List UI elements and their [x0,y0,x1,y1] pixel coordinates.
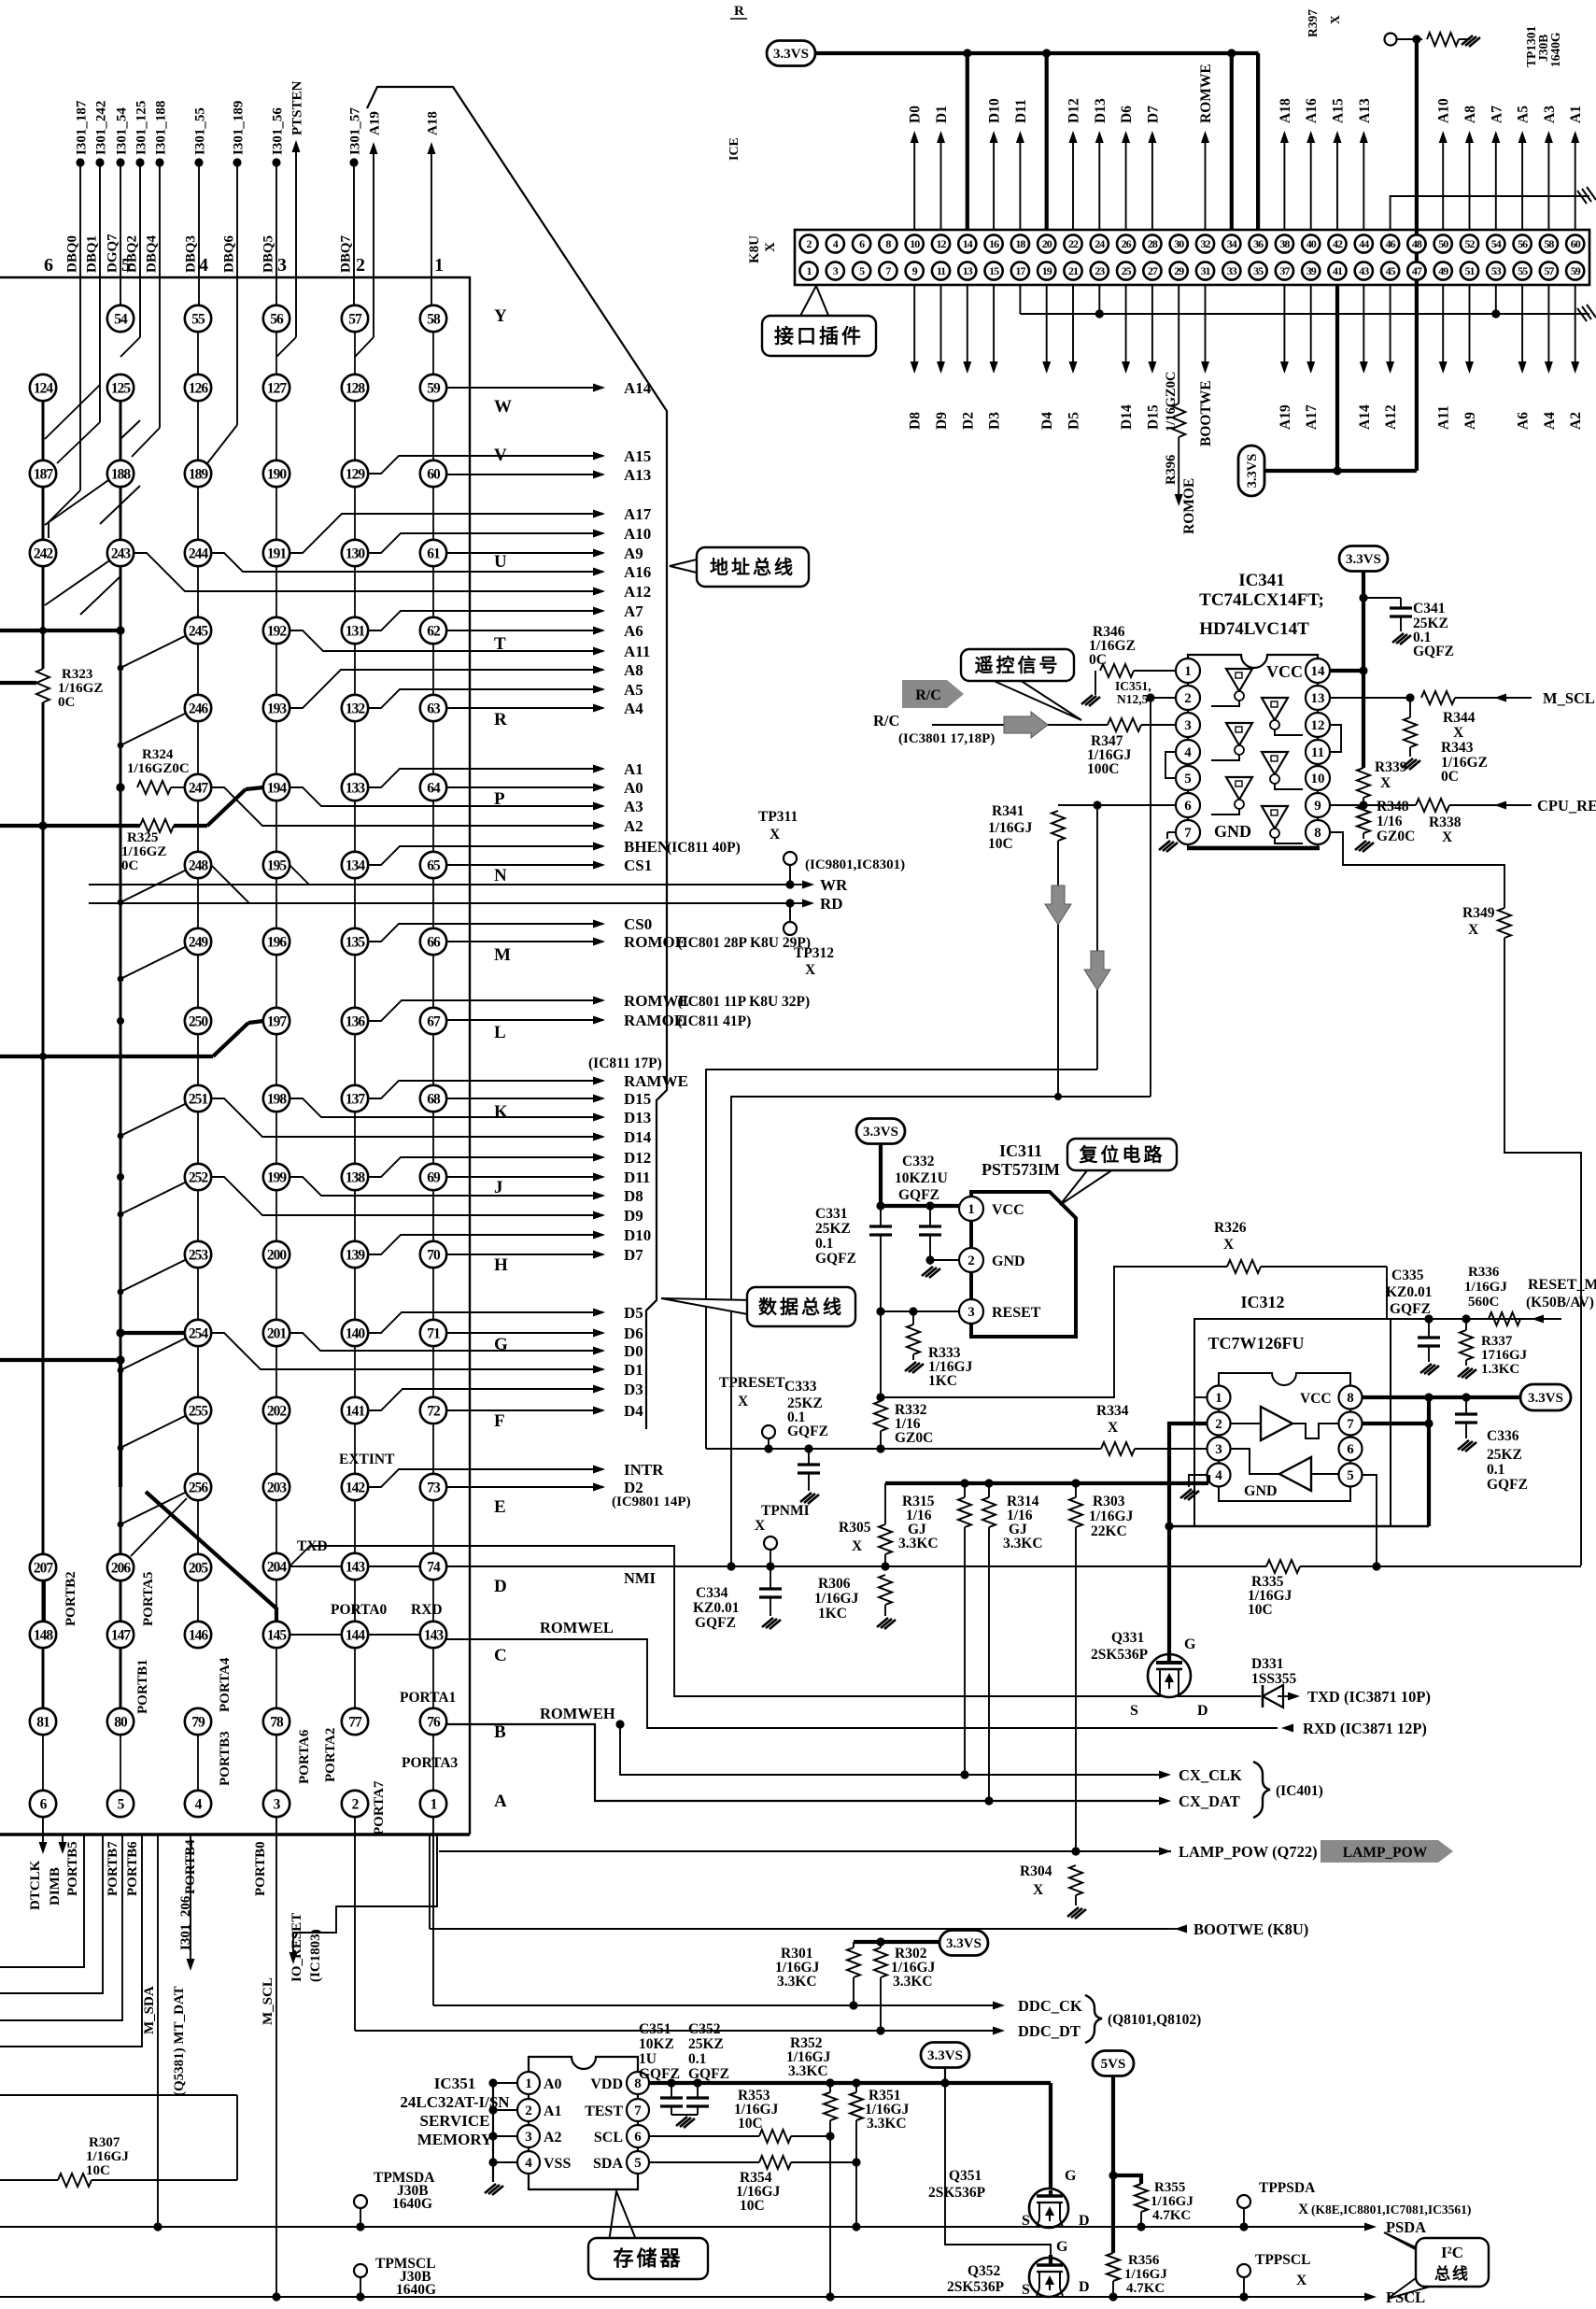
signal BHEN [368,846,603,865]
svg-text:N: N [494,866,507,885]
wire TXD route from 204 to Q331 S [290,1546,1149,1696]
svg-text:X: X [1442,829,1453,845]
svg-text:(IC811 40P): (IC811 40P) [667,840,741,856]
svg-text:A9: A9 [624,545,643,562]
CPU pin 2 [342,1791,368,1817]
svg-text:SERVICE: SERVICE [420,2112,490,2130]
svg-text:198: 198 [267,1091,288,1107]
connector pin 48 [1407,234,1425,252]
CPU pin 69 [420,1164,446,1190]
svg-text:1.3KC: 1.3KC [1481,1362,1519,1377]
svg-text:X: X [755,1518,766,1534]
svg-text:A17: A17 [624,505,652,523]
wire diagonal 256 to 206 [131,1498,187,1556]
svg-text:DBQ4: DBQ4 [145,234,160,273]
wire GND bus thick [885,1481,1208,1485]
svg-text:R355: R355 [1154,2180,1185,2195]
staircase wire 5 [0,2094,237,2096]
svg-text:R334: R334 [1096,1403,1129,1419]
svg-text:2: 2 [1215,1417,1222,1432]
connector pin 27 [1143,262,1161,279]
wire fan diagonal to row 758 [120,714,185,745]
signal D6 [446,1332,603,1334]
connector pin 25 [1117,262,1135,279]
svg-text:D2: D2 [960,412,976,430]
wire column4 vertical [275,332,277,1791]
signal D0 [290,1333,603,1351]
resistor R304 X [1069,1865,1082,1895]
svg-text:197: 197 [267,1013,288,1029]
resistor R306 1/16GJ 1KC [879,1575,892,1605]
connector pin 15 [985,262,1003,279]
svg-text:C352: C352 [688,2021,721,2037]
svg-text:3: 3 [277,255,287,276]
svg-text:207: 207 [34,1560,54,1576]
CPU pin 77 [342,1708,368,1735]
svg-text:PORTB0: PORTB0 [253,1841,268,1896]
svg-text:D0: D0 [908,106,924,123]
resistor R335 1/16GJ 10C [1266,1560,1300,1573]
svg-text:194: 194 [267,780,288,796]
svg-text:2: 2 [967,1254,975,1268]
svg-text:D: D [1197,1703,1208,1719]
wire pin31 down signal BOOTWE [1205,285,1207,364]
svg-text:TPRESET: TPRESET [719,1375,785,1391]
svg-text:201: 201 [267,1325,287,1341]
wire 3.3VS to pin14 [966,53,969,230]
power 3.3VS for IC311 [856,1119,905,1144]
svg-text:3.3KC: 3.3KC [1003,1536,1043,1551]
svg-text:R: R [734,4,744,19]
svg-text:数据总线: 数据总线 [758,1296,844,1318]
svg-text:RXD: RXD [411,1602,443,1618]
svg-text:17: 17 [1015,264,1025,277]
svg-text:E: E [494,1497,506,1517]
wire fan diagonal to row 926 [120,871,185,902]
svg-text:4: 4 [1215,1468,1222,1483]
signal CX_CLK [1159,1771,1171,1779]
svg-text:EXTINT: EXTINT [339,1452,395,1467]
CPU pin 128 [342,375,368,401]
svg-text:C335: C335 [1391,1268,1424,1283]
svg-text:D11: D11 [1013,99,1029,123]
connector pin 18 [1011,234,1029,252]
wire pin2 net IC351 N12.5 [1151,697,1175,699]
svg-text:A18: A18 [426,111,441,135]
CPU pin 134 [342,852,368,878]
wire NMI junction [881,1562,889,1570]
svg-text:25KZ: 25KZ [815,1221,851,1237]
connector pin 34 [1222,234,1240,252]
resistor R325 1/16GZ in thick line [0,824,140,828]
svg-text:14: 14 [1311,664,1326,679]
svg-text:55: 55 [1518,264,1528,277]
svg-text:0C: 0C [58,695,75,710]
svg-text:5: 5 [1184,772,1192,786]
svg-text:128: 128 [346,380,366,396]
connector pin 35 [1250,262,1267,279]
wire CX_CLK route [615,1720,624,1728]
svg-text:PORTA1: PORTA1 [400,1690,456,1706]
svg-text:CX_CLK: CX_CLK [1179,1766,1242,1784]
signal WR line [290,865,309,885]
signal ROMWE [368,1000,603,1021]
svg-text:124: 124 [34,380,54,396]
svg-text:R/C: R/C [873,712,899,730]
wire cross link lower [731,1097,1151,1566]
signal A2 [211,787,603,826]
svg-text:26: 26 [1122,237,1132,250]
svg-text:205: 205 [189,1560,209,1576]
svg-text:TC74LCX14FT;: TC74LCX14FT; [1199,590,1324,610]
svg-text:1/16GJ: 1/16GJ [1151,2194,1193,2209]
svg-text:D4: D4 [624,1402,643,1420]
CPU pin 188 [107,460,134,487]
CPU pin 148 [30,1622,56,1648]
svg-text:A1: A1 [624,760,643,778]
CPU pin 204 [263,1553,290,1579]
svg-text:10: 10 [1311,772,1325,786]
svg-text:R341: R341 [992,803,1024,819]
svg-text:IC341: IC341 [1238,571,1285,590]
svg-text:144: 144 [346,1627,366,1643]
wire pin49 down signal A11 [1442,285,1444,364]
svg-text:61: 61 [427,545,440,561]
staircase wire 2 [0,1834,103,1993]
svg-text:253: 253 [189,1247,209,1263]
svg-text:133: 133 [346,780,366,796]
svg-text:3.3VS: 3.3VS [1346,552,1381,567]
svg-text:J: J [494,1178,503,1197]
svg-text:X: X [763,242,778,252]
wire VDD corner to Q351 gate [1049,2083,1052,2190]
test point TPPSDA X [1237,2195,1250,2208]
svg-text:1/16GZ0C: 1/16GZ0C [1164,372,1179,432]
wire SDA down to TPMSDA line [855,2162,857,2227]
wire DDC_CK vertical [432,1817,434,2005]
svg-text:X: X [1453,725,1464,741]
svg-text:D10: D10 [987,98,1003,123]
connector pin 48 overlay [1407,234,1425,252]
CPU pin 60 [420,460,446,487]
svg-text:11: 11 [1311,745,1324,760]
IC341 pin 2 [1176,686,1200,710]
bracket Q8101 Q8102 [1085,1995,1102,2043]
CPU pin 56 [263,305,290,332]
svg-text:0.1: 0.1 [815,1236,833,1252]
wire pin27 down signal D15 [1151,285,1153,364]
svg-text:39: 39 [1306,264,1317,277]
svg-text:(IC401): (IC401) [1276,1783,1323,1799]
wire DDC_DT vertical [354,1817,356,2031]
CPU pin 198 [263,1085,290,1112]
wire fan diagonal [100,486,140,524]
connector pin 53 [1487,262,1504,279]
signal A4 [446,707,603,709]
svg-text:IO_RESET: IO_RESET [290,1913,304,1982]
IC351 pin 5 SDA [627,2151,649,2174]
svg-text:10C: 10C [740,2198,765,2214]
inverter gate 6 [1262,806,1288,829]
test point TPMSCL J30B 1640G [354,2264,367,2277]
svg-text:1/16GJ: 1/16GJ [1124,2267,1167,2282]
CPU pin 137 [342,1085,368,1112]
CPU pin 203 [263,1474,290,1500]
IC U311 body [971,1192,1076,1337]
svg-text:131: 131 [346,623,365,639]
resistor R303 1/16GJ 22KC [1069,1497,1082,1527]
svg-text:10KZ1U: 10KZ1U [895,1170,948,1186]
svg-text:BOOTWE: BOOTWE [1198,380,1214,446]
wire DBQ7 down to 57 [353,163,355,305]
CPU pin 66 [420,928,446,955]
svg-text:29: 29 [1174,264,1184,277]
svg-text:DBQ6: DBQ6 [222,234,237,273]
staircase wire 1 [0,1834,84,1967]
svg-text:(IC9801,IC8301): (IC9801,IC8301) [805,857,905,872]
svg-text:20: 20 [1042,237,1052,250]
svg-text:12: 12 [1311,718,1325,733]
net I301_187 DBQ0 top wire [76,158,84,166]
connector pin 43 [1355,262,1373,279]
svg-text:54: 54 [114,311,128,327]
svg-text:C: C [494,1646,507,1665]
connector pin 22 [1064,234,1081,252]
svg-text:A10: A10 [1436,98,1452,123]
svg-text:GQFZ: GQFZ [1390,1301,1431,1317]
svg-text:1640G: 1640G [392,2196,432,2212]
svg-text:RAMOE: RAMOE [624,1012,685,1029]
wire pin38 up signal A18 [1283,142,1285,230]
op-amp U341 body TC74LCX14FT [1188,655,1318,847]
svg-text:37: 37 [1279,264,1290,277]
svg-text:48: 48 [1412,237,1422,250]
svg-text:44: 44 [1359,237,1369,250]
IC312 pin 4 [1208,1464,1231,1487]
connector pin 58 [1540,234,1558,252]
svg-text:A11: A11 [1436,405,1452,430]
CPU pin 206 [107,1554,134,1580]
wire R349 down to R335 line [1504,938,1581,1565]
svg-text:A1: A1 [1568,106,1584,123]
svg-text:34: 34 [1227,237,1237,250]
svg-text:81: 81 [36,1714,49,1730]
resistor R332 1/16 GZ0C [874,1401,887,1431]
connector pin 44 [1355,234,1373,252]
net A19 arrow [370,142,378,154]
svg-text:KZ0.01: KZ0.01 [1386,1284,1433,1300]
CPU pin 131 [342,617,368,644]
svg-text:3.3KC: 3.3KC [777,1974,817,1990]
buffer triangle 1 [1261,1407,1292,1440]
power 3.3VS right [1520,1384,1571,1410]
test point TP312 X [789,903,791,922]
svg-text:D15: D15 [1145,404,1161,430]
net I301_55 DBQ3 top wire [194,158,203,166]
connector pin 41 [1328,262,1346,279]
svg-text:TP311: TP311 [758,809,798,825]
wire pin2 to ground [930,1259,959,1261]
CPU pin 142 [342,1474,368,1500]
connector pin 17 [1011,262,1029,279]
svg-text:ROMWEL: ROMWEL [540,1619,614,1636]
wire R301 R302 top rail [854,1940,940,1944]
wire pin39 down signal A17 [1310,285,1312,364]
wire DBQ1 down to 187 [99,163,101,422]
svg-text:22: 22 [1068,237,1079,250]
wire DBQ3 down to 55 [198,163,200,305]
svg-text:100C: 100C [1087,761,1119,777]
wire pin6 junction down long [1096,805,1098,1070]
svg-text:62: 62 [427,623,441,639]
svg-text:134: 134 [346,857,366,873]
svg-text:1: 1 [434,255,444,276]
svg-text:58: 58 [427,311,441,327]
CPU pin 207 [30,1554,56,1580]
callout I2C 总线 [1384,2232,1436,2260]
CPU pin 81 [30,1708,56,1735]
svg-text:Y: Y [494,306,507,326]
svg-text:1U: 1U [639,2051,657,2067]
svg-text:D3: D3 [987,412,1003,430]
connector pin 33 [1222,262,1240,279]
wire pin5 to R335 line [1363,1475,1377,1566]
svg-text:GQFZ: GQFZ [815,1251,856,1267]
svg-text:202: 202 [267,1403,288,1419]
svg-text:RESET: RESET [992,1305,1041,1321]
svg-text:A13: A13 [624,466,651,484]
svg-text:2SK536P: 2SK536P [947,2279,1005,2295]
svg-text:11: 11 [937,264,946,277]
svg-text:250: 250 [189,1013,209,1029]
svg-text:A0: A0 [544,2076,562,2092]
wire fan diagonal [45,385,100,439]
svg-text:57: 57 [1544,264,1554,277]
wire fan diagonal [45,553,120,605]
svg-text:191: 191 [267,545,287,561]
svg-text:196: 196 [267,934,288,950]
CPU pin 195 [263,852,290,878]
svg-text:6: 6 [1184,799,1192,814]
power 3.3VS mid oval [1238,446,1264,496]
wire VCC to pin1 [881,1204,959,1208]
svg-text:R396: R396 [1164,455,1179,485]
svg-text:IC312: IC312 [1240,1293,1284,1311]
connector pin 26 [1117,234,1135,252]
CPU pin 130 [342,540,368,566]
connector pin 50 [1434,234,1452,252]
wire 3.3VS to pin34 [1230,53,1234,230]
power 3.3VS top rail [767,41,815,66]
resistor R315 1/16 GJ 3.3KC [958,1497,971,1527]
CPU pin 190 [263,460,290,487]
svg-text:28: 28 [1148,237,1158,250]
svg-text:A16: A16 [624,563,651,581]
connector pin 8 [879,234,897,252]
svg-text:TEST: TEST [585,2104,623,2119]
wire pin50 up signal A10 [1442,142,1444,230]
net I301_188 DBQ4 top wire [155,158,163,166]
resistor R354 1/16GJ 10C [759,2156,791,2169]
svg-text:A16: A16 [1304,98,1320,123]
connector pin 42 [1328,234,1346,252]
CPU pin 3 [263,1791,290,1817]
wire thick feed row10 [0,1055,213,1058]
svg-text:6: 6 [1347,1442,1354,1457]
CPU pin 196 [263,928,290,955]
svg-text:R305: R305 [839,1520,871,1536]
callout 接口插件 [799,286,829,318]
resistor R326 X [1227,1260,1261,1273]
svg-text:RESET_M: RESET_M [1528,1277,1596,1293]
bracket IC401 [1253,1762,1270,1818]
wire 207 to 148 [44,1580,46,1622]
svg-text:ROMOE: ROMOE [624,933,685,951]
svg-text:GND: GND [1214,822,1251,841]
svg-text:3.3VS: 3.3VS [863,1125,898,1140]
signal DTCLK [42,1817,44,1845]
wire pin13 M_SCL [1331,697,1410,699]
wire 3.3VS mid rail [1264,469,1417,473]
svg-text:DBQ1: DBQ1 [85,235,100,273]
CPU pin 65 [420,852,446,878]
wire DBQ4 down to 188 [159,163,161,428]
svg-text:K8U: K8U [747,235,762,263]
svg-text:255: 255 [189,1403,209,1419]
svg-text:3: 3 [967,1305,975,1320]
svg-text:27: 27 [1148,264,1158,277]
connector pin 60 [1566,234,1584,252]
svg-text:50: 50 [1438,237,1448,250]
svg-text:79: 79 [191,1714,205,1730]
svg-text:A5: A5 [1516,106,1532,123]
CPU pin 125 [107,375,134,401]
svg-text:GQFZ: GQFZ [1413,644,1454,659]
svg-text:CPU_RESET: CPU_RESET [1537,797,1596,815]
svg-text:D: D [494,1577,507,1596]
resistor R339 X [1357,768,1370,798]
IC312 pin 2 [1208,1412,1231,1436]
CPU pin 4 [185,1791,211,1817]
CPU pin 251 [185,1085,211,1112]
IC312 internal wires [1231,1423,1261,1424]
svg-text:59: 59 [427,380,441,396]
wire thick feed row5 [0,629,120,632]
svg-text:X: X [1328,15,1342,24]
svg-text:2: 2 [1184,691,1192,706]
wire column1 vertical [42,401,45,669]
resistor R355 1/16GJ 4.7KC [1113,2175,1141,2184]
svg-text:M_SCL: M_SCL [261,1977,275,2025]
svg-text:D5: D5 [624,1304,643,1322]
svg-text:A1: A1 [544,2104,562,2119]
svg-text:D7: D7 [624,1246,643,1264]
svg-text:32: 32 [1201,237,1211,250]
connector pin 20 [1038,234,1055,252]
svg-text:A3: A3 [624,798,643,815]
callout 数据总线 [661,1298,753,1315]
svg-text:R349: R349 [1462,905,1495,921]
svg-text:193: 193 [267,701,288,716]
svg-text:6: 6 [44,255,53,276]
svg-text:127: 127 [267,380,288,396]
svg-text:M_SDA: M_SDA [142,1986,157,2034]
svg-text:PORTA4: PORTA4 [218,1657,233,1712]
wire pin3 reset node [881,1310,959,1312]
svg-text:PORTB3: PORTB3 [218,1731,233,1786]
power 3.3VS gate [921,2043,969,2068]
svg-text:C334: C334 [696,1585,728,1601]
